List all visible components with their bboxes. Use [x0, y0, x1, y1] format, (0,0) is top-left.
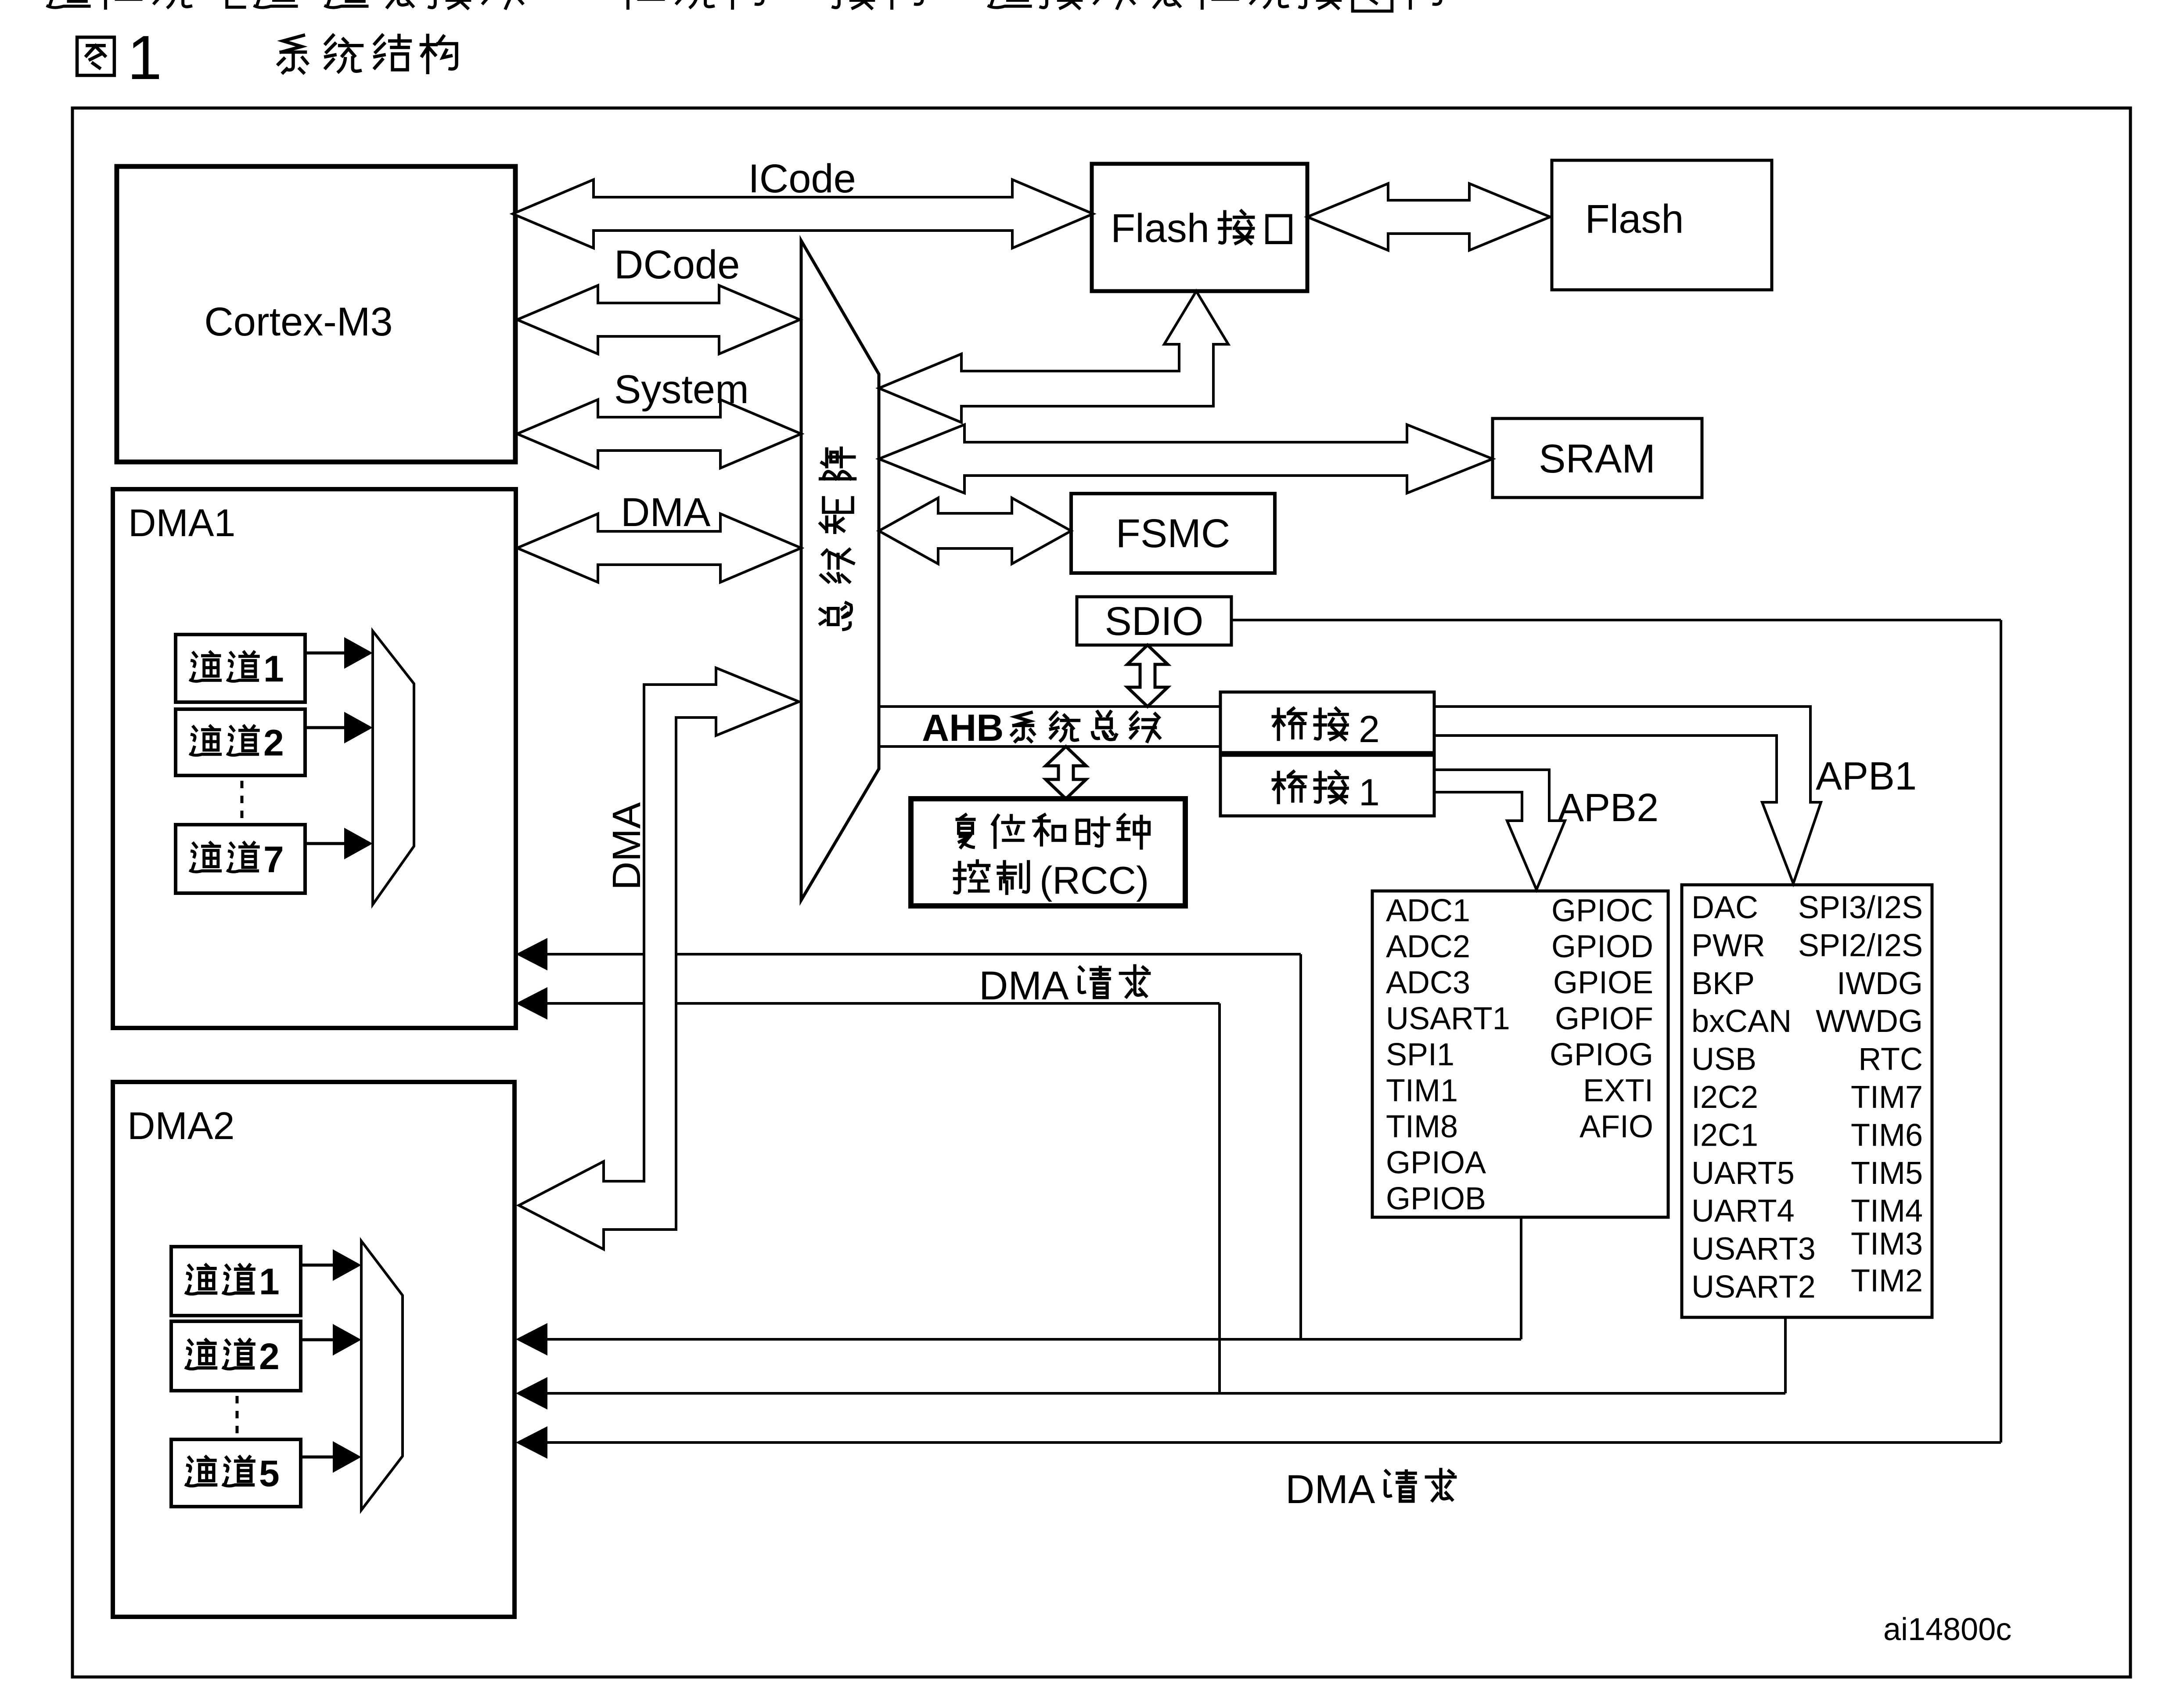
APB2 bent arrow: [1434, 770, 1565, 890]
svg-text:SPI3/I2S: SPI3/I2S: [1798, 890, 1923, 925]
svg-text:DMA: DMA: [979, 963, 1069, 1008]
svg-text:APB1: APB1: [1816, 754, 1917, 798]
tall DMA bus arrow: [519, 668, 799, 1249]
svg-text:ICode: ICode: [748, 156, 856, 201]
block Flash: [1552, 160, 1772, 290]
svg-text:DMA: DMA: [605, 802, 649, 890]
channel arrow: [305, 726, 347, 729]
svg-text:TIM1: TIM1: [1386, 1073, 1458, 1108]
svg-text:1: 1: [259, 1261, 280, 1302]
block Cortex-M3: [117, 166, 515, 462]
bus matrix trapezoid 总线矩阵: [801, 241, 879, 900]
channel arrow: [301, 1264, 335, 1267]
matrix <-> FSMC arrow: [879, 498, 1071, 564]
DMA1 channel 通道2: [176, 709, 305, 775]
APB1 bent arrow: [1434, 707, 1821, 883]
svg-text:ai14800c: ai14800c: [1883, 1612, 2011, 1647]
svg-text:1: 1: [1359, 772, 1380, 814]
matrix to Flash interface arrow: [879, 291, 1228, 422]
SDIO <-> AHB arrow: [1127, 645, 1168, 707]
svg-text:APB2: APB2: [1558, 786, 1659, 830]
svg-text:USART1: USART1: [1386, 1001, 1510, 1036]
block Flash 接口: [1092, 164, 1307, 291]
DMA1 channel 通道1: [176, 635, 305, 702]
svg-text:UART4: UART4: [1691, 1194, 1795, 1229]
svg-text:1: 1: [263, 648, 284, 689]
svg-text:ADC2: ADC2: [1386, 929, 1470, 964]
DMA request net APB1->DMA1/DMA2: [547, 1002, 1220, 1005]
svg-text:SPI1: SPI1: [1386, 1037, 1454, 1072]
svg-text:DMA: DMA: [1285, 1467, 1375, 1512]
ICode bus arrow: [513, 180, 1093, 248]
svg-text:TIM2: TIM2: [1851, 1263, 1923, 1298]
svg-text:GPIOE: GPIOE: [1553, 965, 1653, 1000]
svg-text:TIM7: TIM7: [1851, 1080, 1923, 1115]
DMA1 mux trapezoid: [373, 631, 414, 905]
svg-text:SRAM: SRAM: [1539, 436, 1655, 481]
svg-text:TIM6: TIM6: [1851, 1118, 1923, 1153]
svg-text:Flash: Flash: [1585, 197, 1684, 242]
svg-text:IWDG: IWDG: [1837, 966, 1923, 1001]
System bus arrow: [517, 400, 801, 468]
svg-text:Flash: Flash: [1111, 206, 1209, 251]
svg-text:DMA2: DMA2: [127, 1104, 235, 1147]
title 图1 系统结构: [77, 37, 115, 76]
DMA1 channel 通道7: [176, 825, 305, 893]
svg-text:5: 5: [259, 1453, 280, 1494]
svg-text:(RCC): (RCC): [1040, 858, 1149, 902]
block APB2 peripherals: [1372, 891, 1668, 1217]
svg-text:ADC1: ADC1: [1386, 893, 1470, 928]
svg-text:BKP: BKP: [1691, 966, 1755, 1001]
svg-text:USB: USB: [1691, 1042, 1756, 1077]
AHB system bus band: [879, 705, 1220, 708]
block RCC 复位和时钟控制: [911, 799, 1185, 906]
channel arrow: [305, 652, 347, 655]
svg-text:FSMC: FSMC: [1116, 511, 1231, 556]
svg-text:AFIO: AFIO: [1580, 1109, 1653, 1144]
svg-text:TIM4: TIM4: [1851, 1194, 1923, 1229]
DMA bus arrow (DMA1-matrix): [517, 514, 801, 582]
svg-text:RTC: RTC: [1858, 1042, 1923, 1077]
block 桥接2: [1220, 692, 1434, 753]
svg-text:2: 2: [1359, 708, 1380, 750]
matrix <-> SRAM arrow: [879, 425, 1493, 493]
block DMA2: [113, 1082, 515, 1617]
svg-text:TIM8: TIM8: [1386, 1109, 1458, 1144]
svg-text:2: 2: [263, 722, 284, 764]
svg-text:DMA1: DMA1: [128, 501, 236, 545]
DMA request net SDIO->DMA2: [1231, 619, 2001, 621]
svg-text:UART5: UART5: [1691, 1156, 1795, 1191]
DMA2 channel 通道1: [171, 1247, 301, 1316]
block SDIO: [1077, 597, 1231, 645]
svg-text:PWR: PWR: [1691, 928, 1765, 963]
svg-text:bxCAN: bxCAN: [1691, 1004, 1792, 1039]
svg-text:System: System: [614, 367, 749, 412]
block DMA1: [113, 489, 516, 1028]
svg-text:GPIOC: GPIOC: [1551, 893, 1653, 928]
svg-text:Cortex-M3: Cortex-M3: [204, 299, 392, 344]
svg-text:7: 7: [263, 839, 284, 880]
Flash interface <-> Flash arrow: [1307, 184, 1550, 250]
block FSMC: [1071, 494, 1275, 573]
svg-text:2: 2: [259, 1336, 280, 1377]
DCode bus arrow: [517, 285, 800, 354]
svg-text:SDIO: SDIO: [1105, 599, 1204, 644]
svg-text:I2C2: I2C2: [1691, 1080, 1758, 1115]
dashed link DMA2: [236, 1396, 239, 1439]
channel arrow: [301, 1338, 335, 1341]
svg-text:1: 1: [127, 23, 162, 93]
clipped heading text row: [48, 0, 1441, 11]
dashed link DMA1: [241, 781, 244, 824]
svg-text:WWDG: WWDG: [1816, 1004, 1923, 1039]
svg-text:GPIOF: GPIOF: [1555, 1001, 1653, 1036]
channel arrow: [301, 1456, 335, 1459]
svg-text:TIM5: TIM5: [1851, 1156, 1923, 1191]
DMA2 mux trapezoid: [361, 1241, 403, 1510]
svg-text:ADC3: ADC3: [1386, 965, 1470, 1000]
DMA2 channel 通道2: [171, 1321, 301, 1391]
svg-text:GPIOG: GPIOG: [1550, 1037, 1653, 1072]
block APB1 peripherals: [1682, 885, 1932, 1317]
block SRAM: [1493, 418, 1702, 498]
svg-text:USART2: USART2: [1691, 1269, 1816, 1305]
DMA request net APB2->DMA1/DMA2: [547, 953, 1301, 956]
svg-text:DAC: DAC: [1691, 890, 1758, 925]
svg-text:GPIOA: GPIOA: [1386, 1145, 1486, 1180]
svg-text:DCode: DCode: [614, 242, 740, 287]
svg-text:SPI2/I2S: SPI2/I2S: [1798, 928, 1923, 963]
svg-text:EXTI: EXTI: [1583, 1073, 1653, 1108]
svg-text:DMA: DMA: [621, 490, 711, 535]
AHB <-> RCC arrow: [1046, 746, 1086, 799]
svg-text:GPIOB: GPIOB: [1386, 1181, 1486, 1216]
channel arrow: [305, 842, 347, 845]
svg-text:AHB: AHB: [922, 707, 1004, 749]
svg-text:I2C1: I2C1: [1691, 1118, 1758, 1153]
DMA2 channel 通道5: [171, 1439, 301, 1507]
svg-text:GPIOD: GPIOD: [1551, 929, 1653, 964]
svg-text:TIM3: TIM3: [1851, 1226, 1923, 1262]
svg-text:USART3: USART3: [1691, 1232, 1816, 1267]
block 桥接1: [1220, 755, 1434, 816]
